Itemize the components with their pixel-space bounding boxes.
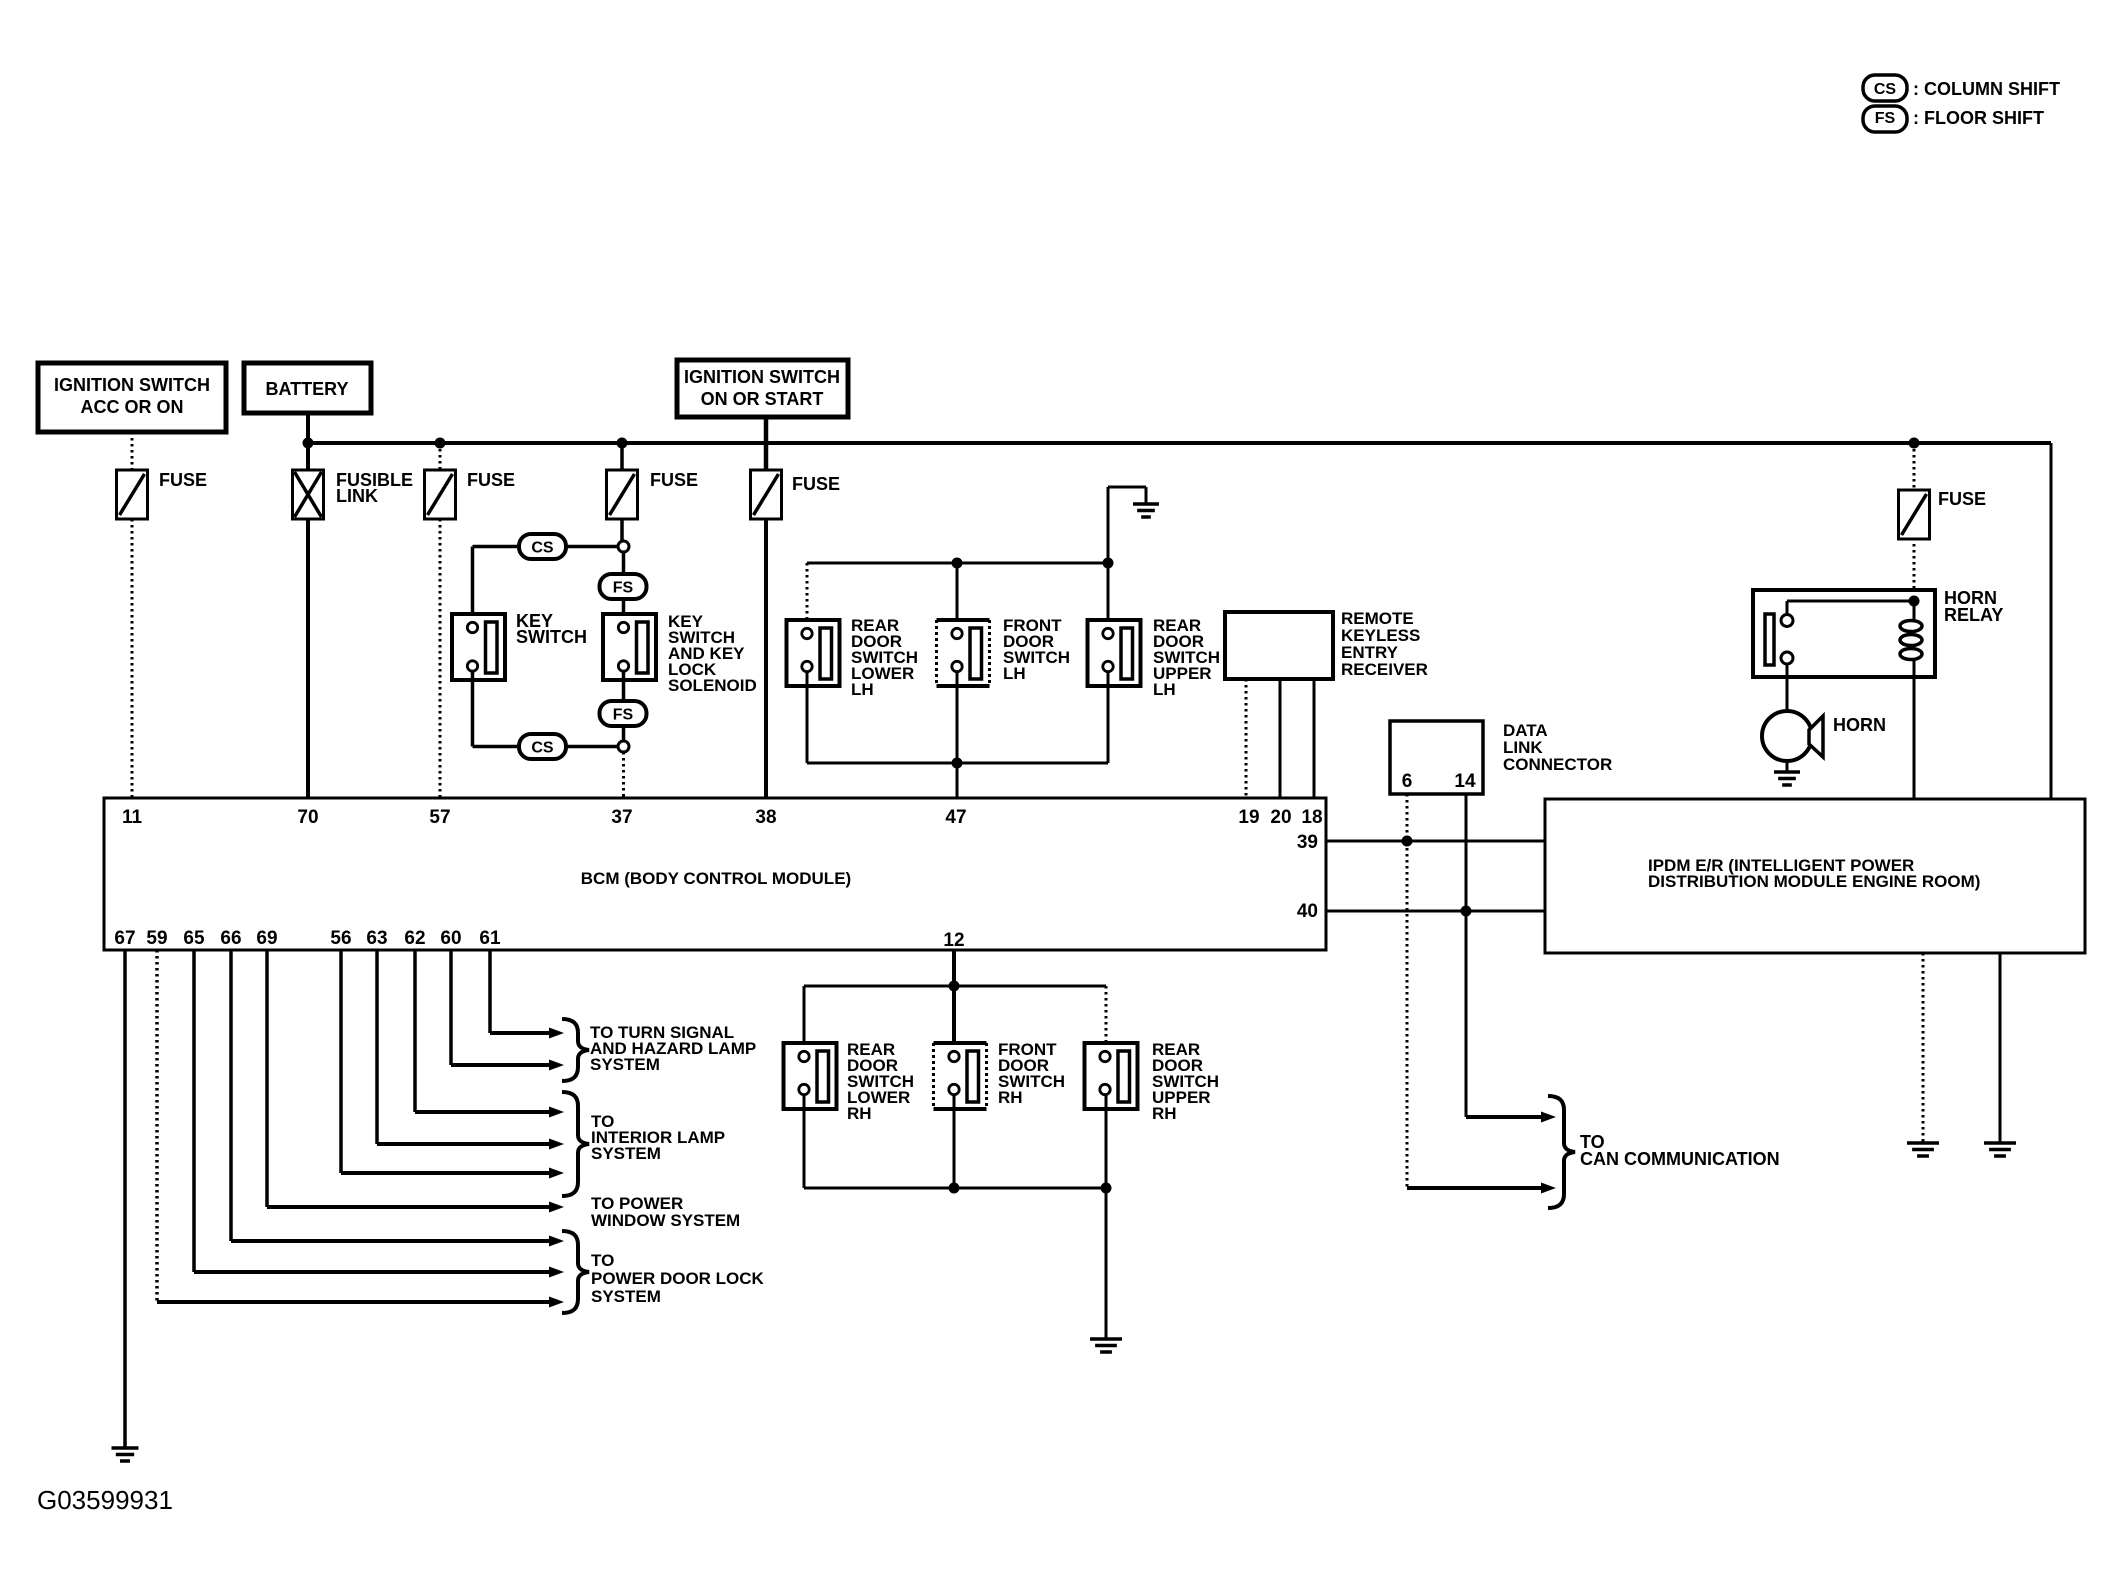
node relay coil feed	[1909, 596, 1920, 607]
svg-text:CS: CS	[531, 540, 554, 557]
wire fuse F2 to BCM pin 57	[439, 519, 442, 798]
wire drop to rear door switch upper RH	[1105, 986, 1108, 1051]
power source box IGNITION SWITCH ON OR START	[677, 360, 848, 417]
ground G4 (horn)	[1774, 770, 1800, 774]
wire RH top bus	[804, 985, 1106, 988]
svg-text:FS: FS	[613, 707, 634, 724]
fusible link FL1	[293, 470, 324, 519]
svg-text:LH: LH	[1153, 680, 1176, 699]
node LH bottom bus	[952, 758, 963, 769]
svg-text:RECEIVER: RECEIVER	[1341, 660, 1428, 679]
svg-text:FUSE: FUSE	[1938, 489, 1986, 509]
ground G5 (IPDM 1)	[1907, 1141, 1939, 1145]
wire drop to rear door switch lower RH	[803, 986, 806, 1051]
svg-text:47: 47	[945, 807, 966, 828]
svg-text:38: 38	[755, 807, 776, 828]
wire drop to front door switch LH	[956, 563, 959, 628]
svg-text:: COLUMN SHIFT: : COLUMN SHIFT	[1913, 79, 2060, 99]
wire FS pill to key lock solenoid	[622, 599, 626, 622]
node LH top bus at front switch	[952, 558, 963, 569]
legend FS pill (floor shift)	[1863, 106, 1907, 132]
front door switch LH	[937, 620, 990, 686]
svg-text:G03599931: G03599931	[37, 1485, 173, 1515]
wire RH to ground	[1105, 1188, 1108, 1339]
rear door switch lower RH	[784, 1043, 837, 1109]
wire BCM pin 67 to ground	[123, 950, 127, 1448]
svg-text:56: 56	[330, 928, 351, 949]
remote keyless entry receiver box	[1225, 612, 1333, 679]
wire drop to rear door switch upper LH	[1107, 563, 1110, 628]
fuse F3 (key switch and key lock solenoid feed)	[607, 470, 638, 519]
ground G6 (IPDM 2)	[1984, 1141, 2016, 1145]
svg-text:RH: RH	[847, 1104, 872, 1123]
svg-text:19: 19	[1238, 807, 1259, 828]
wire rear upper LH to bottom bus	[1107, 672, 1110, 763]
node A (open)	[618, 541, 629, 552]
wire bus to horn fuse	[1913, 443, 1916, 490]
wire receiver to BCM pin 20	[1279, 679, 1282, 798]
key switch S1 box	[452, 614, 505, 680]
svg-text:6: 6	[1402, 771, 1413, 792]
horn symbol	[1762, 711, 1812, 761]
wire rear lower LH to bottom bus	[806, 672, 809, 763]
wire rear lower RH to bottom bus	[803, 1095, 806, 1188]
svg-text:20: 20	[1270, 807, 1291, 828]
wire front RH to bottom bus	[953, 1095, 956, 1188]
ground G1 (LH door switch)	[1133, 502, 1159, 506]
node pin 6 on 39 line	[1402, 836, 1413, 847]
wire relay contact to horn	[1786, 664, 1789, 711]
wire battery bus	[308, 441, 2051, 445]
svg-text:66: 66	[220, 928, 241, 949]
rear door switch lower LH	[787, 620, 840, 686]
wire BCM pin 12 drop	[952, 950, 956, 986]
wire CAN arrow lower	[1406, 1187, 1409, 1190]
svg-text:62: 62	[404, 928, 425, 949]
wire drop to front door switch RH	[952, 986, 956, 1051]
wire BCM pin 59 output	[155, 950, 159, 1302]
svg-text:HORN: HORN	[1833, 715, 1886, 735]
svg-text:SYSTEM: SYSTEM	[591, 1144, 661, 1163]
wire S2 to FS pill lower	[622, 672, 626, 701]
svg-text:65: 65	[183, 928, 205, 949]
wire relay coil to IPDM	[1913, 658, 1916, 799]
svg-text:CS: CS	[1874, 81, 1897, 98]
node RH top bus	[949, 981, 960, 992]
ground G2 (BCM pin 67)	[112, 1446, 139, 1450]
node bus at battery	[303, 438, 314, 449]
wire RH bottom bus	[804, 1187, 1106, 1190]
wire fuse F1 to BCM pin 11	[131, 519, 134, 798]
wire LH bottom bus	[807, 762, 1108, 765]
wire CS pill lower to node B	[566, 745, 618, 749]
svg-text:69: 69	[256, 928, 277, 949]
svg-text:SOLENOID: SOLENOID	[668, 676, 757, 695]
wire IPDM ground 1 (dotted)	[1922, 953, 1925, 1143]
brace turn signal group	[562, 1019, 589, 1081]
node pin 14 on 40 line	[1461, 906, 1472, 917]
svg-text:SYSTEM: SYSTEM	[590, 1055, 660, 1074]
key switch and key lock solenoid S2 box	[603, 614, 656, 680]
fuse F2 (key switch feed)	[425, 470, 456, 519]
svg-text:FS: FS	[1875, 110, 1896, 127]
pill CS upper	[519, 534, 566, 559]
svg-text:18: 18	[1301, 807, 1322, 828]
fuse F1 (ACC feed)	[117, 470, 148, 519]
svg-text:RH: RH	[998, 1088, 1023, 1107]
svg-text:63: 63	[366, 928, 387, 949]
svg-text:SYSTEM: SYSTEM	[591, 1287, 661, 1306]
svg-text:TO: TO	[591, 1251, 614, 1270]
svg-text:67: 67	[114, 928, 135, 949]
svg-text:BCM (BODY CONTROL MODULE): BCM (BODY CONTROL MODULE)	[581, 869, 851, 888]
svg-text:40: 40	[1297, 901, 1318, 922]
node bus at horn fuse column	[1909, 438, 1920, 449]
power source box BATTERY	[244, 363, 371, 413]
wire node A to FS pill upper	[622, 552, 626, 574]
wire BCM pin 69 output	[265, 950, 269, 1207]
wire BCM pin 39 to IPDM	[1326, 840, 1545, 843]
wire BCM pin 61 output	[488, 950, 492, 1033]
node bus at fuse 37 column	[617, 438, 628, 449]
wire battery box to bus	[306, 413, 310, 443]
svg-text:11: 11	[122, 807, 143, 828]
node LH top bus at ground riser	[1103, 558, 1114, 569]
svg-text:39: 39	[1297, 832, 1318, 853]
wire BCM pin 62 output	[413, 950, 417, 1112]
wire DLC pin 6 drop	[1406, 794, 1409, 1188]
wire receiver to BCM pin 19	[1245, 679, 1248, 798]
svg-text:WINDOW SYSTEM: WINDOW SYSTEM	[591, 1211, 740, 1230]
wire receiver to BCM pin 18	[1313, 679, 1316, 798]
relay contact upper	[1781, 615, 1793, 627]
svg-text:LH: LH	[1003, 664, 1026, 683]
svg-text:70: 70	[297, 807, 318, 828]
wire fusible link to BCM pin 70	[306, 519, 310, 798]
wire ignition on-start box to fuse F4	[764, 417, 769, 470]
relay contact lower	[1781, 652, 1793, 664]
node RH bottom bus at ground	[1101, 1183, 1112, 1194]
svg-text:57: 57	[429, 807, 450, 828]
wire bus to fuse F3	[620, 443, 624, 470]
brace interior lamp group	[562, 1092, 589, 1196]
wire LH to BCM pin 47	[956, 763, 959, 798]
wire bus right drop to IPDM	[2050, 443, 2053, 799]
IPDM E/R box	[1545, 799, 2085, 953]
wire bus to fusible link	[306, 443, 310, 470]
wire IPDM ground 2	[1999, 953, 2002, 1143]
horn relay box	[1753, 590, 1935, 677]
wire BCM pin 63 output	[375, 950, 379, 1144]
svg-text:RH: RH	[1152, 1104, 1177, 1123]
svg-text:CONNECTOR: CONNECTOR	[1503, 755, 1612, 774]
pill CS lower	[519, 734, 566, 759]
wire BCM pin 60 output	[449, 950, 453, 1065]
wire horn fuse to relay	[1913, 538, 1916, 601]
svg-text:SWITCH: SWITCH	[516, 627, 587, 647]
rear door switch upper RH	[1085, 1043, 1138, 1109]
wire LH ground riser	[1107, 487, 1110, 563]
svg-text:FUSE: FUSE	[159, 470, 207, 490]
BCM (body control module) box	[104, 798, 1326, 950]
brace CAN communication	[1548, 1096, 1575, 1208]
svg-text:60: 60	[440, 928, 461, 949]
svg-text:CAN COMMUNICATION: CAN COMMUNICATION	[1580, 1149, 1780, 1169]
power source box IGNITION SWITCH ACC OR ON	[38, 363, 226, 432]
wire DLC pin 14 drop	[1465, 794, 1468, 1117]
wire node A to CS pill	[566, 545, 618, 549]
wire CAN arrow upper	[1466, 1115, 1546, 1119]
data link connector box	[1390, 721, 1483, 794]
svg-text:FUSE: FUSE	[650, 470, 698, 490]
svg-text:RELAY: RELAY	[1944, 605, 2003, 625]
wire ACC box to fuse	[131, 432, 134, 470]
wire FS pill lower to node B	[622, 726, 626, 741]
wire fuse F3 to node A	[620, 519, 624, 541]
svg-text:FUSE: FUSE	[792, 474, 840, 494]
wire node B to BCM pin 37	[622, 752, 625, 798]
svg-text:ACC OR ON: ACC OR ON	[81, 397, 184, 417]
svg-text:12: 12	[943, 930, 964, 951]
pill FS lower	[600, 701, 647, 726]
svg-text:IGNITION SWITCH: IGNITION SWITCH	[54, 375, 210, 395]
wire corner down to key switch	[471, 547, 475, 623]
pill FS upper	[600, 574, 647, 599]
wire BCM pin 40 to IPDM	[1326, 910, 1545, 913]
svg-text:37: 37	[611, 807, 632, 828]
wire key switch S1 to lower CS row	[471, 672, 475, 747]
wire BCM pin 65 output	[192, 950, 196, 1272]
brace power door lock group	[562, 1231, 589, 1313]
svg-text:61: 61	[479, 928, 501, 949]
svg-text:FUSE: FUSE	[467, 470, 515, 490]
node RH bottom bus at front switch	[949, 1183, 960, 1194]
wire lower CS row to pill	[473, 745, 520, 749]
wire BCM pin 56 output	[339, 950, 343, 1173]
wire horn to ground	[1786, 761, 1789, 772]
wire BCM pin 66 output	[229, 950, 233, 1241]
svg-text:FS: FS	[613, 580, 634, 597]
svg-text:59: 59	[146, 928, 167, 949]
svg-text:POWER DOOR LOCK: POWER DOOR LOCK	[591, 1269, 765, 1288]
svg-text:LH: LH	[851, 680, 874, 699]
wire rear upper RH to bottom bus	[1105, 1095, 1108, 1188]
svg-text:IGNITION SWITCH: IGNITION SWITCH	[684, 367, 840, 387]
ground G3 (RH door switch)	[1090, 1337, 1122, 1341]
wire bus to fuse F2	[439, 443, 442, 470]
svg-text:LINK: LINK	[336, 486, 378, 506]
svg-text:: FLOOR SHIFT: : FLOOR SHIFT	[1913, 108, 2044, 128]
svg-text:DISTRIBUTION MODULE ENGINE ROO: DISTRIBUTION MODULE ENGINE ROOM)	[1648, 872, 1980, 891]
rear door switch upper LH	[1088, 620, 1141, 686]
svg-text:CS: CS	[531, 740, 554, 757]
svg-text:BATTERY: BATTERY	[266, 379, 349, 399]
svg-text:ON OR START: ON OR START	[701, 389, 824, 409]
wire fuse F4 to BCM pin 38	[764, 519, 768, 798]
relay coil	[1913, 601, 1916, 620]
front door switch RH	[934, 1043, 987, 1109]
wire drop to rear door switch lower LH	[806, 563, 809, 628]
fuse F5 (horn)	[1899, 490, 1930, 539]
legend CS pill (column shift)	[1863, 75, 1907, 101]
svg-text:14: 14	[1454, 771, 1476, 792]
node bus at fuse 57 column	[435, 438, 446, 449]
node B (open)	[618, 741, 629, 752]
wire CS pill to corner	[473, 545, 520, 549]
wire front LH to bottom bus	[956, 672, 959, 763]
wire LH top bus	[807, 562, 1108, 565]
relay contact wire	[1787, 600, 1914, 603]
fuse F4 (ignition feed)	[751, 470, 782, 519]
relay armature slot	[1765, 614, 1774, 665]
